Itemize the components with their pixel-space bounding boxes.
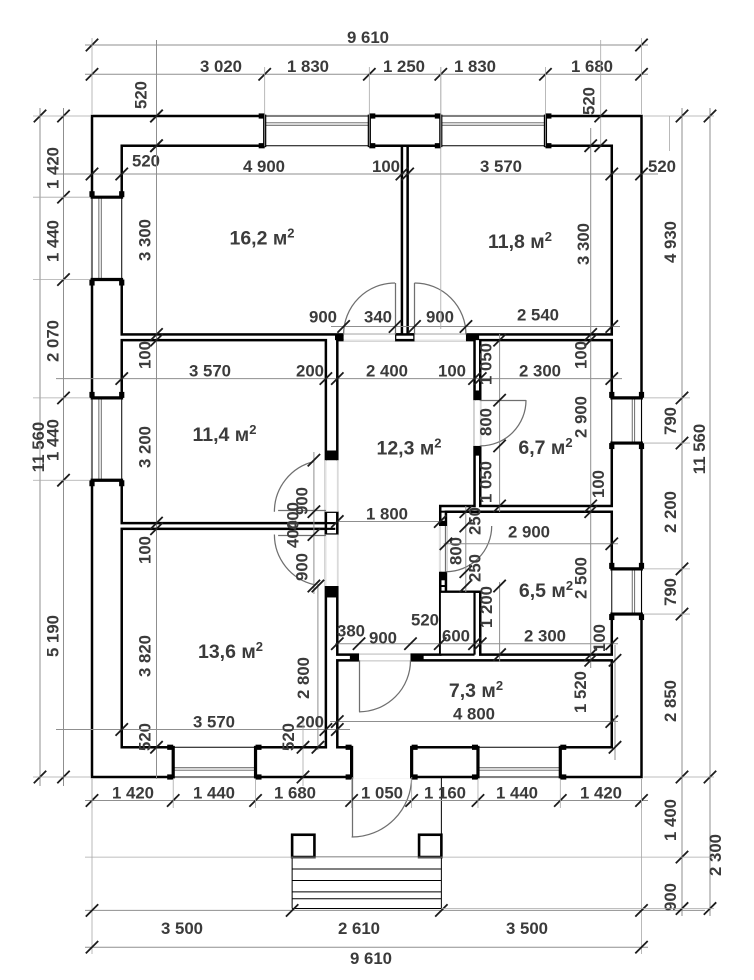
window WR1 top jamb <box>610 396 643 399</box>
porch right edge <box>440 777 442 909</box>
window WL1 glazing <box>98 197 100 279</box>
svg-text:9 610: 9 610 <box>350 949 392 968</box>
svg-text:2 900: 2 900 <box>508 523 550 542</box>
svg-text:790: 790 <box>661 578 680 606</box>
dim col hall doors <box>499 334 501 512</box>
door 11.8 arc <box>415 283 466 334</box>
window WL1 opening <box>91 197 124 279</box>
dim col 1520 <box>614 645 616 760</box>
svg-text:900: 900 <box>309 308 337 327</box>
ext line right top <box>644 115 715 117</box>
window WB2 glazing <box>478 769 560 771</box>
jamb <box>410 655 423 661</box>
entrance door arc <box>352 777 412 837</box>
svg-text:100: 100 <box>136 341 155 369</box>
520 ext bottom <box>302 722 304 786</box>
ext line <box>641 38 643 114</box>
door 6.5 arc <box>446 526 492 572</box>
svg-text:520: 520 <box>132 152 160 171</box>
svg-text:1 680: 1 680 <box>274 783 316 802</box>
window WR1 opening <box>610 398 643 443</box>
T wall stub <box>326 512 337 535</box>
svg-text:1 420: 1 420 <box>44 147 63 189</box>
door 11.4 opening <box>325 460 339 511</box>
porch left edge <box>291 857 293 908</box>
svg-text:520: 520 <box>648 157 676 176</box>
entrance left jamb <box>350 746 353 779</box>
svg-text:13,6 м2: 13,6 м2 <box>198 639 263 663</box>
window WB1 glazing <box>173 769 255 771</box>
window W1 right jamb <box>368 115 371 148</box>
window W2 opening <box>441 115 546 148</box>
svg-text:2 300: 2 300 <box>524 627 566 646</box>
window WL2 opening <box>91 398 124 480</box>
door 7.3 leaf <box>359 660 361 711</box>
svg-text:520: 520 <box>132 81 151 109</box>
ext line <box>544 67 546 146</box>
svg-text:3 300: 3 300 <box>574 223 593 265</box>
top wall pier <box>369 116 440 146</box>
window W1 glazing <box>265 122 370 124</box>
svg-text:1 520: 1 520 <box>571 671 590 713</box>
window WL2 top jamb <box>91 396 124 399</box>
door 7.3 opening <box>359 653 410 661</box>
ext line left <box>33 279 90 281</box>
svg-text:11,4 м2: 11,4 м2 <box>193 422 257 446</box>
dim col right rooms <box>590 128 592 668</box>
closet bottom edge <box>440 654 474 656</box>
ext line bottom corner R <box>641 779 643 954</box>
window WL2 bottom jamb <box>91 479 124 482</box>
svg-text:1 440: 1 440 <box>193 783 235 802</box>
room 6.7 interior <box>480 340 612 506</box>
svg-text:1 400: 1 400 <box>661 799 680 841</box>
jamb <box>466 334 479 340</box>
svg-text:1 200: 1 200 <box>477 586 496 628</box>
svg-text:100: 100 <box>589 470 608 498</box>
svg-text:1 050: 1 050 <box>477 461 496 503</box>
svg-text:4 800: 4 800 <box>453 704 495 723</box>
dim row C <box>56 378 622 380</box>
svg-text:3 020: 3 020 <box>200 57 242 76</box>
window W1 opening <box>265 115 370 148</box>
svg-text:200: 200 <box>296 712 324 731</box>
svg-text:100: 100 <box>372 157 400 176</box>
window WB1 opening <box>173 746 255 779</box>
ext line left <box>33 776 90 778</box>
ext line <box>440 67 442 146</box>
svg-text:520: 520 <box>580 87 599 115</box>
door 6.7 opening <box>473 400 481 446</box>
svg-text:3 570: 3 570 <box>189 361 231 380</box>
svg-text:250: 250 <box>466 507 485 535</box>
svg-text:9 610: 9 610 <box>347 28 389 47</box>
window WB2 right jamb <box>559 746 562 779</box>
svg-text:340: 340 <box>364 308 392 327</box>
svg-text:900: 900 <box>661 883 680 911</box>
entrance right jamb <box>410 746 413 779</box>
door 6.7 leaf <box>480 400 526 402</box>
room 11.8 interior <box>408 146 612 335</box>
svg-text:790: 790 <box>661 407 680 435</box>
dim col 16.2/11.4/13.6 <box>156 40 158 779</box>
ext line left <box>33 397 90 399</box>
door 13.6 leaf <box>278 535 326 537</box>
door 13.6 arc <box>274 535 314 585</box>
dim col 2800 <box>317 584 319 750</box>
svg-text:1 680: 1 680 <box>571 57 613 76</box>
svg-text:900: 900 <box>293 553 312 581</box>
room 7.3 interior <box>337 660 611 747</box>
ext line left <box>33 196 90 198</box>
svg-text:2 850: 2 850 <box>661 680 680 722</box>
porch step 2 <box>292 868 441 870</box>
jamb <box>475 390 481 400</box>
svg-text:1 830: 1 830 <box>287 57 329 76</box>
ext line 6100 long <box>440 67 442 329</box>
ext line right <box>644 397 691 399</box>
svg-text:11 560: 11 560 <box>29 422 48 472</box>
ext line left <box>33 115 90 117</box>
window WB2 opening <box>478 746 560 779</box>
ext line <box>368 67 370 146</box>
window WR2 glazing <box>634 569 636 614</box>
room 11.4 interior <box>122 340 326 523</box>
ext line bottom <box>255 779 257 808</box>
dim right total <box>709 108 711 916</box>
window WR2 bottom jamb <box>610 612 643 615</box>
svg-text:1 800: 1 800 <box>366 504 408 523</box>
window W2 left jamb <box>439 115 442 148</box>
ext line bottom <box>641 779 643 808</box>
dim col 6.5 door <box>465 506 467 592</box>
window WR1 bottom jamb <box>610 441 643 444</box>
svg-text:3 570: 3 570 <box>480 157 522 176</box>
dim row A <box>53 173 658 175</box>
svg-text:4 900: 4 900 <box>243 157 285 176</box>
jamb <box>475 446 481 456</box>
svg-text:2 900: 2 900 <box>572 396 591 438</box>
svg-text:2 070: 2 070 <box>44 320 63 362</box>
ext line bottom <box>559 779 561 808</box>
door 7.3 arc <box>359 660 410 711</box>
door 16.2 leaf <box>395 283 397 334</box>
svg-text:250: 250 <box>466 554 485 582</box>
svg-text:900: 900 <box>426 308 454 327</box>
svg-text:380: 380 <box>337 622 365 641</box>
center door stub <box>395 334 414 340</box>
door 6.7 arc <box>480 400 526 446</box>
window WL1 top jamb <box>91 196 124 199</box>
ext line right <box>644 613 691 615</box>
svg-text:3 200: 3 200 <box>136 426 155 468</box>
svg-text:6,5 м2: 6,5 м2 <box>519 578 573 602</box>
svg-text:12,3 м2: 12,3 м2 <box>376 436 441 460</box>
ext line right <box>644 568 691 570</box>
svg-text:400: 400 <box>284 520 303 548</box>
svg-text:6,7 м2: 6,7 м2 <box>518 435 572 459</box>
svg-text:4 930: 4 930 <box>661 221 680 263</box>
ext line bottom corner L <box>91 779 93 954</box>
svg-text:7,3 м2: 7,3 м2 <box>449 678 503 702</box>
dim bottom chain <box>85 800 648 802</box>
svg-text:100: 100 <box>572 341 591 369</box>
door 16.2 opening <box>344 333 395 341</box>
svg-text:3 570: 3 570 <box>193 712 235 731</box>
window WR1 glazing <box>634 398 636 443</box>
svg-text:1 420: 1 420 <box>112 783 154 802</box>
svg-text:600: 600 <box>442 627 470 646</box>
entrance door opening <box>352 746 412 779</box>
dim row B <box>331 326 620 328</box>
ext line bottom <box>172 779 174 808</box>
window W1 left jamb <box>263 115 266 148</box>
svg-text:1 440: 1 440 <box>496 783 538 802</box>
ext line <box>91 38 93 114</box>
closet interior <box>440 592 474 655</box>
svg-text:2 400: 2 400 <box>366 361 408 380</box>
window WR2 opening <box>610 569 643 614</box>
svg-text:2 300: 2 300 <box>706 834 725 876</box>
ext line bottom <box>351 779 353 808</box>
svg-text:1 050: 1 050 <box>477 343 496 385</box>
svg-text:1 440: 1 440 <box>44 220 63 262</box>
window W2 right jamb <box>544 115 547 148</box>
svg-text:520: 520 <box>279 723 298 751</box>
ext line bottom <box>91 779 93 808</box>
closet top edge <box>440 591 474 593</box>
ext stub right corner <box>669 116 671 151</box>
dim row E <box>85 909 705 911</box>
svg-text:16,2 м2: 16,2 м2 <box>229 226 294 250</box>
porch step 4 <box>292 891 441 893</box>
dim 1800 <box>337 521 440 523</box>
ext line <box>264 67 266 146</box>
svg-text:100: 100 <box>438 361 466 380</box>
porch step 1 <box>314 856 419 858</box>
dim col 1200 <box>499 582 501 662</box>
dim line top chain <box>85 73 648 75</box>
window WR2 top jamb <box>610 567 643 570</box>
dim row F <box>85 946 648 948</box>
dim right chain <box>681 108 683 916</box>
svg-text:2 610: 2 610 <box>338 919 380 938</box>
jamb <box>440 572 446 581</box>
svg-text:520: 520 <box>411 611 439 630</box>
svg-text:3 300: 3 300 <box>136 219 155 261</box>
hall 12.3 interior <box>337 340 474 654</box>
window WB1 right jamb <box>254 746 257 779</box>
wall face seg <box>440 511 446 513</box>
jamb <box>335 334 344 340</box>
door 6.5 opening <box>439 526 447 572</box>
svg-text:1 420: 1 420 <box>580 783 622 802</box>
door 13.6 opening <box>325 535 339 586</box>
door 6.5 leaf <box>445 526 447 572</box>
dim left total <box>39 108 41 786</box>
closet front thin line <box>439 592 441 655</box>
room 6.5 interior <box>446 512 612 655</box>
ext line bottom <box>411 779 413 808</box>
ext line left <box>33 479 90 481</box>
svg-text:800: 800 <box>477 408 496 436</box>
door 11.4 leaf <box>278 510 326 512</box>
dim hall bottom / 2300 <box>335 643 618 645</box>
svg-text:2 800: 2 800 <box>294 657 313 699</box>
porch bottom edge <box>292 908 441 910</box>
window WL1 bottom jamb <box>91 278 124 281</box>
porch step 5 <box>292 898 441 900</box>
svg-text:3 500: 3 500 <box>506 919 548 938</box>
svg-text:2 500: 2 500 <box>572 557 591 599</box>
svg-text:5 190: 5 190 <box>44 615 63 657</box>
svg-text:2 200: 2 200 <box>661 491 680 533</box>
svg-text:1 830: 1 830 <box>454 57 496 76</box>
svg-text:900: 900 <box>369 629 397 648</box>
porch post left <box>292 835 314 857</box>
svg-text:11 560: 11 560 <box>690 424 709 474</box>
svg-text:3 820: 3 820 <box>136 635 155 677</box>
dim left chain <box>63 108 65 786</box>
ext line right porch2 <box>441 908 714 910</box>
exterior wall outline <box>92 116 642 777</box>
door 11.8 leaf <box>414 283 416 334</box>
jamb <box>326 451 337 461</box>
door 11.4 arc <box>274 462 314 512</box>
closet right edge <box>473 592 475 655</box>
window WL2 glazing <box>98 398 100 480</box>
door 11.8 opening <box>415 333 466 341</box>
entrance door leaf <box>352 777 354 837</box>
svg-text:1 160: 1 160 <box>424 783 466 802</box>
jamb <box>326 586 337 597</box>
step wall top face <box>440 585 446 587</box>
svg-text:11,8 м2: 11,8 м2 <box>488 229 552 253</box>
svg-text:520: 520 <box>136 723 155 751</box>
window W2 glazing <box>441 122 546 124</box>
window WB1 left jamb <box>172 746 175 779</box>
ext line bottom <box>477 779 479 808</box>
wall arm into stub <box>326 522 335 524</box>
dim 13.6 bottom <box>56 729 350 731</box>
dim 4800 <box>330 721 618 723</box>
room 13.6 interior <box>122 529 326 747</box>
svg-text:1 250: 1 250 <box>383 57 425 76</box>
porch top extension line <box>85 856 714 858</box>
window WB2 left jamb <box>476 746 479 779</box>
ext line right <box>644 442 691 444</box>
jamb <box>350 655 359 661</box>
svg-text:2 540: 2 540 <box>517 306 559 325</box>
door 16.2 arc <box>344 283 395 334</box>
svg-text:1 050: 1 050 <box>361 783 403 802</box>
svg-text:2 300: 2 300 <box>519 361 561 380</box>
svg-text:3 500: 3 500 <box>161 919 203 938</box>
dim col west doors <box>313 452 315 594</box>
svg-text:200: 200 <box>296 361 324 380</box>
svg-text:100: 100 <box>590 624 609 652</box>
520 ext line right <box>600 40 602 147</box>
ext line right <box>644 776 715 778</box>
dim line 9610 top <box>85 44 648 46</box>
porch post right <box>419 835 441 857</box>
svg-text:100: 100 <box>136 536 155 564</box>
dim 2900 6.5 <box>444 543 618 545</box>
wall arm into stub 2 <box>326 528 335 530</box>
room 16.2 interior <box>122 146 402 335</box>
jamb <box>440 521 446 526</box>
porch step 3 <box>292 880 441 882</box>
